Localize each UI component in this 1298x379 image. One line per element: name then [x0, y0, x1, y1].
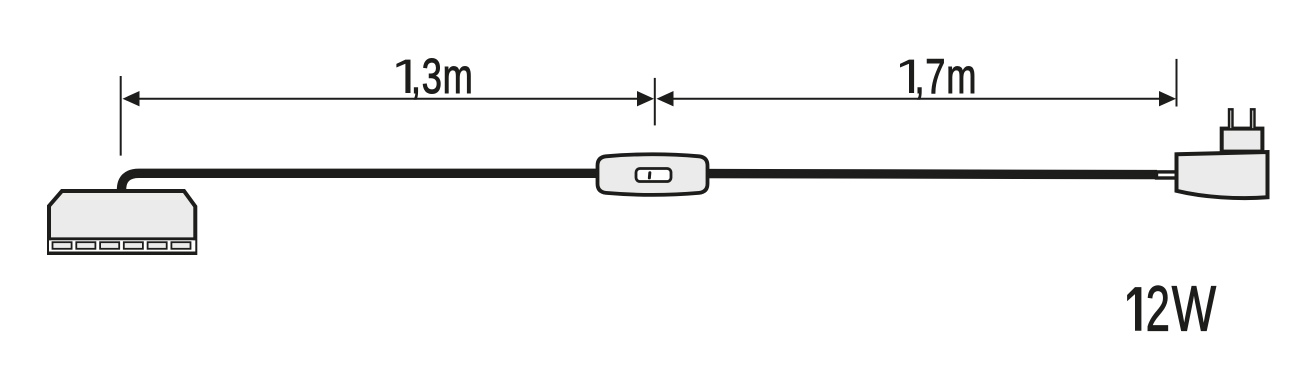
svg-text:2: 2	[1146, 272, 1170, 345]
svg-text:W: W	[1172, 273, 1216, 345]
svg-text:,7m: ,7m	[915, 50, 978, 105]
svg-text:,3m: ,3m	[411, 50, 474, 105]
